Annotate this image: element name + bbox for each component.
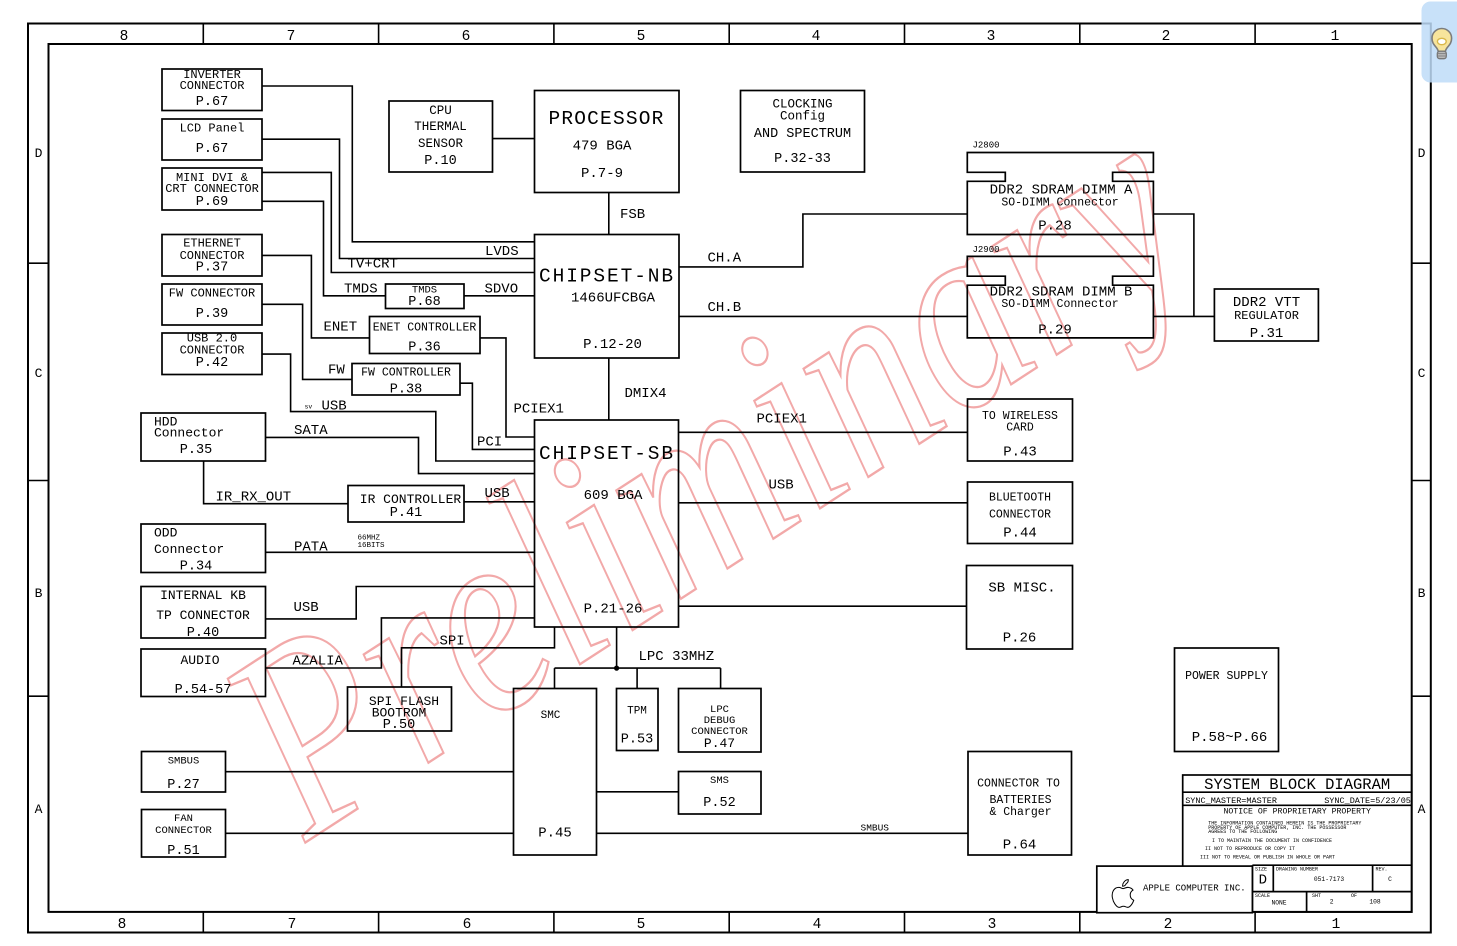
svg-text:DMIX4: DMIX4 (625, 386, 667, 402)
svg-text:P.7-9: P.7-9 (581, 166, 623, 182)
frame column ticks bottom (203, 912, 1255, 933)
svg-text:USB: USB (485, 486, 510, 502)
block LPC DEBUG CONNECTOR P.47 (679, 689, 762, 753)
text spi flash bootrom (369, 694, 439, 733)
svg-text:479 BGA: 479 BGA (573, 139, 632, 155)
text fw controller (361, 367, 451, 398)
block PROCESSOR 479 BGA P.7-9 (535, 91, 680, 193)
wire AZALIA audio to chipset-sb (266, 618, 535, 668)
block FW CONTROLLER P.38 (352, 364, 460, 396)
svg-text:SMBUS: SMBUS (168, 756, 200, 768)
block CHIPSET-NB 1466UFCBGA P.12-20 (535, 235, 680, 359)
svg-text:AUDIO: AUDIO (180, 653, 219, 668)
wire cpu thermal sensor to processor (493, 138, 535, 140)
text sb misc (988, 581, 1055, 647)
wire LPC chipset-sb down (616, 627, 618, 668)
text tmds box (408, 285, 440, 311)
svg-text:CHIPSET-SB: CHIPSET-SB (539, 443, 675, 465)
svg-text:FW CONTROLLER: FW CONTROLLER (361, 367, 451, 380)
svg-text:P.38: P.38 (390, 383, 422, 398)
svg-text:CONNECTOR: CONNECTOR (155, 825, 212, 837)
svg-text:TP CONNECTOR: TP CONNECTOR (156, 608, 250, 623)
svg-text:LPC 33MHZ: LPC 33MHZ (639, 649, 715, 665)
text dimm a (973, 141, 1134, 235)
svg-text:SB MISC.: SB MISC. (988, 581, 1055, 597)
frame column labels bottom (118, 917, 1341, 933)
block CPU THERMAL SENSOR P.10 (389, 101, 493, 172)
wire chipset-sb to sb misc (679, 605, 967, 607)
svg-text:P.21-26: P.21-26 (584, 602, 643, 618)
svg-text:P.39: P.39 (196, 307, 228, 322)
svg-text:P.10: P.10 (424, 154, 456, 169)
block SMBUS P.27 (142, 752, 226, 793)
svg-text:INTERNAL KB: INTERNAL KB (160, 588, 246, 603)
wire smc to sms (597, 791, 679, 793)
svg-text:SMBUS: SMBUS (861, 823, 890, 834)
svg-text:P.52: P.52 (703, 796, 735, 811)
wire PCIEX1 chipset-sb to wireless card (679, 431, 968, 433)
svg-text:P.41: P.41 (390, 506, 422, 521)
block ENET CONTROLLER P.36 (370, 317, 481, 354)
svg-text:THERMAL: THERMAL (414, 120, 467, 134)
svg-text:AGREES TO THE FOLLOWING: AGREES TO THE FOLLOWING (1208, 829, 1277, 835)
block INVERTER CONNECTOR P.67 (162, 69, 262, 111)
text smbus box (167, 756, 199, 794)
bulb icon (1432, 28, 1452, 58)
block POWER SUPPLY P.58~P.66 (1175, 648, 1279, 752)
frame row labels left (35, 146, 43, 817)
svg-text:Connector: Connector (154, 426, 224, 441)
svg-text:USB: USB (769, 478, 794, 494)
svg-text:USB: USB (294, 600, 319, 616)
block CHIPSET-SB 609 BGA P.21-26 (535, 420, 679, 627)
wire PCI fw controller to chipset-sb (460, 383, 535, 449)
wire dimm-a to dimm-b right link (1154, 214, 1194, 316)
title text sht cell (1312, 893, 1381, 906)
svg-text:P.64: P.64 (1003, 838, 1037, 854)
svg-text:sv: sv (305, 404, 313, 411)
text lcd panel (180, 122, 245, 158)
svg-text:CH.A: CH.A (708, 251, 742, 267)
block SMS P.52 (679, 772, 762, 815)
svg-text:TPM: TPM (627, 706, 647, 718)
svg-text:1: 1 (1331, 29, 1340, 45)
svg-text:PCIEX1: PCIEX1 (757, 412, 807, 428)
svg-text:C: C (35, 366, 43, 381)
svg-text:CH.B: CH.B (708, 300, 742, 316)
block INTERNAL KB TP CONNECTOR P.40 (141, 587, 266, 639)
svg-text:A: A (1418, 802, 1426, 817)
svg-text:C: C (1418, 366, 1426, 381)
svg-text:D: D (1259, 873, 1267, 889)
connector J2900 DDR2 SDRAM DIMM B P.29 (967, 256, 1153, 338)
title block frame (1183, 775, 1412, 912)
svg-text:6: 6 (462, 29, 471, 45)
block FW CONNECTOR P.39 (162, 284, 262, 325)
svg-text:REGULATOR: REGULATOR (1234, 309, 1299, 323)
svg-text:CONNECTOR: CONNECTOR (180, 79, 245, 93)
svg-text:CHIPSET-NB: CHIPSET-NB (539, 266, 675, 288)
svg-text:P.67: P.67 (196, 142, 228, 157)
svg-text:6: 6 (463, 917, 472, 933)
text sms (703, 775, 735, 811)
frame column ticks top (203, 24, 1255, 45)
text smc (538, 710, 572, 842)
svg-text:5: 5 (637, 29, 646, 45)
wire LPC drop to tpm (636, 668, 638, 688)
svg-text:P.69: P.69 (196, 195, 228, 210)
text lpc debug connector (691, 704, 748, 751)
block USB 2.0 CONNECTOR P.42 (162, 333, 262, 375)
svg-text:PROCESSOR: PROCESSOR (548, 108, 664, 130)
text internal kb tp connector (156, 588, 250, 641)
svg-text:Config: Config (780, 110, 825, 124)
text power supply (1185, 670, 1268, 746)
bulb panel (1422, 2, 1457, 83)
text ddr2 vtt regulator (1233, 295, 1300, 342)
apple bar frame (1097, 866, 1253, 913)
connector J2800 DDR2 SDRAM DIMM A P.28 (967, 153, 1153, 235)
text cpu thermal sensor (414, 104, 467, 169)
svg-text:IR CONTROLLER: IR CONTROLLER (360, 492, 462, 507)
text tpm (621, 706, 653, 748)
wire LPC drop to smc (554, 668, 556, 688)
wire LVDS lcd to chipset-nb (262, 139, 535, 258)
wire PCIEX1 enet controller to chipset-sb (480, 338, 535, 437)
block TO WIRELESS CARD P.43 (968, 399, 1073, 461)
svg-text:TMDS: TMDS (344, 282, 378, 298)
title text scale cell (1255, 893, 1287, 907)
svg-text:SYNC_DATE=5/23/05: SYNC_DATE=5/23/05 (1324, 796, 1411, 806)
wire USB ir controller to chipset-sb (464, 501, 535, 503)
svg-text:NONE: NONE (1271, 900, 1286, 907)
block CLOCKING Config AND SPECTRUM P.32-33 (741, 91, 865, 173)
svg-text:7: 7 (288, 917, 297, 933)
text odd connector (154, 526, 224, 575)
svg-text:P.43: P.43 (1003, 445, 1037, 461)
svg-text:3: 3 (988, 917, 997, 933)
svg-text:POWER SUPPLY: POWER SUPPLY (1185, 670, 1268, 683)
svg-text:1466UFCBGA: 1466UFCBGA (571, 291, 656, 307)
svg-text:SMS: SMS (710, 775, 729, 787)
text chipset-sb (539, 443, 675, 618)
block TMDS P.68 (386, 284, 465, 309)
apple logo (1112, 880, 1134, 908)
svg-text:BLUETOOTH: BLUETOOTH (989, 492, 1051, 505)
wire LPC bus horizontal (555, 667, 721, 669)
block ODD Connector P.34 (141, 524, 266, 573)
svg-text:AND SPECTRUM: AND SPECTRUM (754, 127, 851, 142)
text fw connector (169, 287, 255, 323)
svg-text:II NOT TO REPRODUCE OR COPY IT: II NOT TO REPRODUCE OR COPY IT (1205, 846, 1295, 852)
watermark Preliminary (172, 54, 1239, 894)
svg-text:8: 8 (120, 29, 129, 45)
svg-text:SO-DIMM Connector: SO-DIMM Connector (1001, 196, 1118, 209)
svg-text:SATA: SATA (294, 423, 328, 439)
wire USB internal-kb to chipset-sb (266, 587, 535, 619)
svg-text:P.40: P.40 (187, 626, 219, 641)
block HDD Connector P.35 (141, 413, 266, 461)
svg-text:C: C (1388, 876, 1392, 883)
block LCD Panel P.67 (162, 119, 262, 160)
svg-text:P.35: P.35 (180, 443, 212, 458)
svg-text:SMC: SMC (541, 710, 561, 722)
wire IR_RX_OUT hdd to ir controller (204, 461, 348, 504)
svg-text:SENSOR: SENSOR (418, 137, 464, 151)
svg-text:8: 8 (118, 917, 127, 933)
svg-text:SPI: SPI (440, 634, 465, 650)
text processor (548, 108, 664, 182)
svg-text:P.45: P.45 (538, 826, 572, 842)
text audio (175, 653, 232, 698)
svg-text:NOTICE OF PROPRIETARY PROPERTY: NOTICE OF PROPRIETARY PROPERTY (1223, 807, 1370, 816)
text connector to batteries (977, 778, 1060, 854)
wire smbus box to smc (226, 771, 514, 773)
wire SATA hdd to chipset-sb (266, 437, 535, 473)
wire dimm-b to ddr2 vtt regulator (1154, 315, 1215, 317)
wire 5v USB usb2.0 to chipset-sb (262, 354, 535, 461)
svg-text:2: 2 (1330, 899, 1334, 906)
svg-text:Connector: Connector (154, 542, 224, 557)
svg-text:4: 4 (813, 917, 822, 933)
text chipset-nb (539, 266, 675, 354)
svg-text:SYSTEM BLOCK DIAGRAM: SYSTEM BLOCK DIAGRAM (1204, 776, 1390, 794)
svg-text:D: D (1418, 146, 1426, 161)
wire inverter to chipset-nb (262, 86, 535, 242)
block FAN CONNECTOR P.51 (142, 810, 226, 858)
svg-text:USB: USB (322, 399, 347, 415)
wire FSB processor to chipset-nb (608, 193, 610, 235)
svg-text:Preliminary: Preliminary (172, 54, 1239, 894)
svg-text:ODD: ODD (154, 526, 178, 541)
svg-text:J2900: J2900 (973, 245, 1000, 255)
block IR CONTROLLER P.41 (348, 486, 464, 523)
svg-text:P.68: P.68 (408, 295, 440, 310)
svg-text:I TO MAINTAIN THE DOCUMENT IN: I TO MAINTAIN THE DOCUMENT IN CONFIDENCE (1212, 838, 1332, 844)
svg-text:FW CONNECTOR: FW CONNECTOR (169, 287, 255, 301)
svg-text:P.28: P.28 (1038, 219, 1072, 235)
block ETHERNET CONNECTOR P.37 (162, 235, 262, 277)
block BLUETOOTH CONNECTOR P.44 (968, 482, 1073, 544)
text inverter connector (180, 68, 245, 110)
svg-text:P.53: P.53 (621, 733, 653, 748)
svg-text:P.29: P.29 (1038, 323, 1072, 339)
frame row ticks right (1412, 263, 1431, 696)
svg-text:CARD: CARD (1006, 422, 1034, 435)
svg-text:P.67: P.67 (196, 95, 228, 110)
svg-text:5: 5 (637, 917, 646, 933)
svg-text:FSB: FSB (620, 207, 645, 223)
svg-text:SDVO: SDVO (485, 282, 519, 298)
text clocking config (754, 98, 851, 168)
text bluetooth connector (989, 492, 1051, 542)
svg-text:1: 1 (1332, 917, 1341, 933)
svg-text:7: 7 (287, 29, 296, 45)
svg-text:3: 3 (987, 29, 996, 45)
svg-text:PATA: PATA (294, 540, 328, 556)
svg-text:OF: OF (1351, 893, 1357, 899)
svg-text:CRT CONNECTOR: CRT CONNECTOR (165, 182, 259, 196)
svg-text:SCALE: SCALE (1255, 893, 1270, 899)
block CONNECTOR TO BATTERIES &amp; Charger P.64 (968, 752, 1072, 856)
wire SPI chipset-sb to spi flash (402, 627, 555, 687)
svg-text:16BITS: 16BITS (358, 542, 386, 550)
block TPM P.53 (617, 689, 659, 751)
svg-text:DRAWING NUMBER: DRAWING NUMBER (1276, 867, 1318, 873)
svg-text:SYNC_MASTER=MASTER: SYNC_MASTER=MASTER (1185, 796, 1277, 806)
frame column labels top (120, 29, 1340, 45)
svg-text:A: A (35, 802, 43, 817)
svg-text:AZALIA: AZALIA (293, 654, 344, 670)
block SPI FLASH BOOTROM P.50 (348, 687, 452, 731)
svg-text:4: 4 (812, 29, 821, 45)
svg-text:SHT: SHT (1312, 893, 1321, 899)
text usb 2.0 connector (180, 332, 245, 372)
svg-text:CPU: CPU (429, 104, 452, 118)
text enet controller (373, 322, 477, 356)
block DDR2 VTT REGULATOR P.31 (1214, 289, 1318, 341)
text fan connector (155, 813, 212, 859)
svg-text:P.34: P.34 (180, 560, 212, 575)
svg-text:TV+CRT: TV+CRT (348, 257, 398, 273)
text to wireless card (982, 410, 1058, 461)
svg-text:P.37: P.37 (196, 261, 228, 276)
text ethernet connector (180, 237, 245, 276)
wire TMDS mini-dvi to tmds box (262, 201, 386, 295)
svg-text:IR_RX_OUT: IR_RX_OUT (216, 490, 292, 506)
svg-text:SO-DIMM Connector: SO-DIMM Connector (1001, 298, 1118, 311)
title text size cell (1255, 867, 1267, 889)
wire ENET ethernet to enet controller (262, 255, 370, 338)
svg-text:ENET CONTROLLER: ENET CONTROLLER (373, 322, 477, 335)
svg-text:LCD Panel: LCD Panel (180, 122, 245, 136)
wire PATA odd to chipset-sb (266, 551, 535, 553)
svg-text:PCI: PCI (477, 435, 502, 451)
block MINI DVI &amp; CRT CONNECTOR P.69 (162, 168, 262, 210)
svg-text:& Charger: & Charger (989, 806, 1051, 819)
wire FW fw-connector to fw controller (262, 304, 352, 379)
wire CH.B chipset-nb to dimm-b (679, 315, 967, 317)
block SB MISC. P.26 (967, 566, 1073, 650)
wire DMIX4 chipset-nb to chipset-sb (608, 358, 610, 420)
junction lpc bus node (614, 666, 619, 671)
svg-text:P.27: P.27 (167, 778, 199, 793)
svg-text:APPLE COMPUTER INC.: APPLE COMPUTER INC. (1143, 884, 1246, 894)
svg-text:ENET: ENET (324, 320, 358, 336)
title text rev cell (1376, 867, 1393, 884)
frame row ticks left (28, 263, 49, 696)
wire TV+CRT mini-dvi to chipset-nb (262, 172, 535, 272)
svg-text:P.47: P.47 (704, 736, 735, 751)
svg-text:P.31: P.31 (1250, 326, 1284, 342)
svg-text:P.50: P.50 (383, 718, 415, 733)
svg-text:FAN: FAN (174, 813, 193, 825)
title text drawing number cell (1276, 867, 1344, 884)
text ir controller (360, 492, 462, 521)
title text notice paragraph (1200, 820, 1361, 860)
svg-text:P.36: P.36 (408, 341, 440, 356)
block SMC P.45 (514, 689, 597, 856)
svg-text:P.54-57: P.54-57 (175, 683, 232, 698)
svg-text:LVDS: LVDS (485, 244, 519, 260)
svg-text:P.51: P.51 (167, 844, 199, 859)
svg-text:P.58~P.66: P.58~P.66 (1192, 730, 1268, 746)
svg-text:609 BGA: 609 BGA (584, 488, 643, 504)
svg-text:P.32-33: P.32-33 (774, 152, 831, 167)
svg-text:P.26: P.26 (1003, 631, 1037, 647)
svg-text:051-7173: 051-7173 (1314, 876, 1344, 883)
svg-text:108: 108 (1369, 899, 1381, 906)
svg-text:P.12-20: P.12-20 (583, 337, 642, 353)
text mini dvi (165, 171, 259, 210)
wire SMBUS smc to battery connector (597, 832, 969, 834)
frame row labels right (1418, 146, 1426, 817)
svg-text:D: D (35, 146, 43, 161)
svg-text:REV.: REV. (1376, 867, 1388, 873)
svg-text:J2800: J2800 (973, 141, 1000, 151)
block AUDIO P.54-57 (141, 649, 266, 697)
wire USB chipset-sb to bluetooth (679, 502, 968, 504)
svg-text:CONNECTOR TO: CONNECTOR TO (977, 778, 1060, 791)
wire LPC drop to lpc debug connector (720, 668, 722, 688)
wire SDVO tmds box to chipset-nb (464, 295, 535, 297)
text dimm b (973, 245, 1133, 339)
text hdd connector (154, 415, 224, 459)
svg-text:III NOT TO REVEAL OR PUBLISH I: III NOT TO REVEAL OR PUBLISH IN WHOLE OR… (1200, 855, 1335, 861)
svg-text:PCIEX1: PCIEX1 (514, 402, 564, 418)
wire CH.A chipset-nb to dimm-a (679, 214, 967, 267)
svg-text:FW: FW (328, 363, 345, 379)
svg-text:P.44: P.44 (1003, 526, 1037, 542)
svg-text:2: 2 (1162, 29, 1171, 45)
svg-text:B: B (35, 586, 43, 601)
wire fan connector to smc (226, 832, 514, 834)
svg-text:P.42: P.42 (196, 356, 228, 371)
svg-text:CONNECTOR: CONNECTOR (989, 509, 1051, 522)
svg-text:B: B (1418, 586, 1426, 601)
svg-text:2: 2 (1164, 917, 1173, 933)
